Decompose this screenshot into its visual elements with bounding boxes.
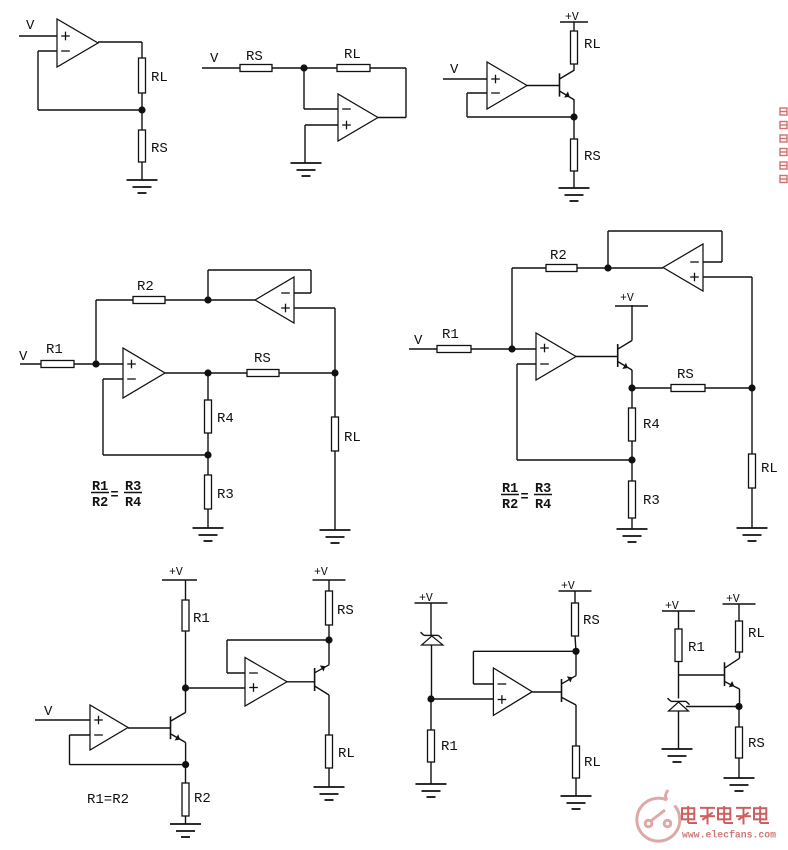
svg-text:RS: RS — [748, 736, 765, 752]
svg-text:R4: R4 — [125, 496, 141, 511]
svg-text:RS: RS — [677, 367, 694, 383]
svg-text:V: V — [26, 18, 35, 34]
svg-text:R2: R2 — [502, 498, 518, 513]
svg-text:R1=R2: R1=R2 — [87, 792, 129, 808]
svg-text:+V: +V — [169, 566, 183, 579]
svg-text:R4: R4 — [535, 498, 551, 513]
svg-text:RL: RL — [761, 461, 778, 477]
svg-text:RS: RS — [246, 49, 263, 65]
svg-text:=: = — [521, 491, 529, 506]
svg-text:V: V — [19, 349, 28, 365]
svg-text:R1: R1 — [442, 327, 459, 343]
svg-text:RL: RL — [584, 755, 601, 771]
svg-text:V: V — [414, 333, 423, 349]
svg-text:RL: RL — [151, 70, 168, 86]
svg-text:RL: RL — [584, 37, 601, 53]
svg-text:R2: R2 — [92, 496, 108, 511]
svg-text:R1: R1 — [46, 342, 63, 358]
svg-text:V: V — [210, 51, 219, 67]
svg-text:+V: +V — [314, 566, 328, 579]
svg-text:R1: R1 — [441, 739, 458, 755]
svg-text:RL: RL — [344, 47, 361, 63]
svg-text:RS: RS — [151, 141, 168, 157]
svg-text:RS: RS — [583, 613, 600, 629]
svg-text:R4: R4 — [217, 411, 234, 427]
svg-text:=: = — [111, 489, 119, 504]
svg-text:www.elecfans.com: www.elecfans.com — [682, 830, 776, 841]
svg-text:+V: +V — [620, 292, 634, 305]
svg-text:V: V — [450, 62, 459, 78]
svg-text:R1: R1 — [688, 640, 705, 656]
svg-text:R3: R3 — [643, 493, 660, 509]
svg-text:RS: RS — [254, 351, 271, 367]
svg-text:R1: R1 — [193, 611, 210, 627]
svg-text:R4: R4 — [643, 417, 660, 433]
svg-text:R3: R3 — [217, 487, 234, 503]
svg-text:V: V — [44, 704, 53, 720]
svg-text:R2: R2 — [137, 279, 154, 295]
svg-text:RL: RL — [748, 626, 765, 642]
svg-text:RL: RL — [344, 430, 361, 446]
svg-text:R2: R2 — [550, 248, 567, 264]
svg-text:RL: RL — [338, 746, 355, 762]
svg-text:RS: RS — [584, 149, 601, 165]
svg-text:RS: RS — [337, 603, 354, 619]
svg-text:R2: R2 — [194, 791, 211, 807]
